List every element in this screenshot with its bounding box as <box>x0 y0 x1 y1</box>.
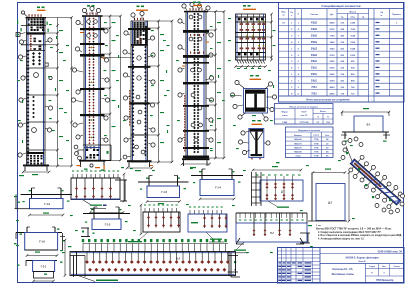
svg-text:блок Б: блок Б <box>358 260 366 263</box>
svg-text:Наимен.: Наимен. <box>294 135 303 137</box>
svg-text:Стадия: Стадия <box>369 266 375 268</box>
svg-text:Масса: Масса <box>349 12 357 14</box>
svg-text:М24х85: М24х85 <box>294 151 302 154</box>
svg-text:Г-1-3: Г-1-3 <box>105 223 111 226</box>
svg-text:ГПИ Механобр: ГПИ Механобр <box>376 279 394 282</box>
svg-text:М20х70: М20х70 <box>294 143 302 145</box>
svg-text:8450: 8450 <box>330 22 336 25</box>
svg-text:Колонны К1 - К5.: Колонны К1 - К5. <box>332 268 353 271</box>
svg-text:1096: 1096 <box>350 42 356 44</box>
svg-text:35Ш2: 35Ш2 <box>311 42 318 44</box>
svg-text:7050: 7050 <box>330 48 336 50</box>
svg-text:Лист: Лист <box>382 266 386 268</box>
svg-text:20Ш1: 20Ш1 <box>311 81 318 83</box>
svg-text:Итого масса металла на сооруже: Итого масса металла на сооружение <box>306 98 350 101</box>
svg-text:20Ш1: 20Ш1 <box>311 74 318 76</box>
svg-text:25Ш1: 25Ш1 <box>311 61 318 63</box>
svg-text:ед.: ед. <box>341 17 344 19</box>
svg-text:4950: 4950 <box>330 86 336 89</box>
svg-text:гайки: гайки <box>295 155 301 158</box>
svg-text:стали: стали <box>282 115 288 117</box>
svg-text:8100: 8100 <box>330 29 336 31</box>
svg-text:Г-1-2: Г-1-2 <box>44 203 50 206</box>
svg-text:4600: 4600 <box>330 92 336 95</box>
svg-text:1144: 1144 <box>350 35 356 38</box>
svg-text:5300: 5300 <box>330 81 336 83</box>
svg-text:Г-1-5: Г-1-5 <box>161 191 167 194</box>
svg-text:Г-1-6: Г-1-6 <box>39 241 45 244</box>
svg-text:1048: 1048 <box>350 47 356 50</box>
svg-text:Состав: Состав <box>310 14 318 16</box>
svg-text:Д-2: Д-2 <box>328 202 332 205</box>
svg-text:М20х60: М20х60 <box>294 139 302 141</box>
svg-text:40Ш2: 40Ш2 <box>311 28 318 31</box>
svg-text:ГОСТ: ГОСТ <box>301 112 307 114</box>
svg-text:Примеч.: Примеч. <box>392 14 401 16</box>
svg-text:25Ш1: 25Ш1 <box>311 68 318 70</box>
svg-text:5650: 5650 <box>330 74 336 76</box>
svg-text:пр.: пр. <box>362 17 365 19</box>
svg-text:Марка: Марка <box>282 112 289 114</box>
svg-text:Спецификация элементов: Спецификация элементов <box>321 4 360 8</box>
svg-text:Дл.: Дл. <box>330 14 334 16</box>
svg-text:Г-1-4: Г-1-4 <box>215 187 221 190</box>
svg-text:30Ш2: 30Ш2 <box>311 55 318 57</box>
svg-text:Болты М20 ГОСТ 7798-70* кл.про: Болты М20 ГОСТ 7798-70* кл.прочн. 5.8 — … <box>316 227 392 230</box>
svg-text:С245: С245 <box>282 121 288 124</box>
svg-text:27772-88: 27772-88 <box>300 122 310 124</box>
svg-text:6000: 6000 <box>330 68 336 70</box>
svg-text:Листов: Листов <box>394 266 400 268</box>
svg-text:40Ш2: 40Ш2 <box>311 22 318 25</box>
svg-text:6350: 6350 <box>330 61 336 63</box>
svg-text:ГОСТ: ГОСТ <box>314 135 320 137</box>
svg-text:М24х75: М24х75 <box>294 146 302 149</box>
svg-text:%: % <box>327 117 329 119</box>
svg-text:30Ш2: 30Ш2 <box>311 48 318 50</box>
svg-text:7750: 7750 <box>330 36 336 38</box>
svg-text:70Б1: 70Б1 <box>311 87 317 89</box>
svg-text:Ведомость метизов: Ведомость метизов <box>298 130 320 132</box>
svg-text:Всего: Всего <box>320 111 326 113</box>
svg-text:3. Все отверстия в колоннах Ø2: 3. Все отверстия в колоннах Ø23мм, сверл… <box>318 235 402 237</box>
svg-text:общ.: общ. <box>350 16 355 19</box>
svg-text:7400: 7400 <box>330 41 336 44</box>
svg-text:1240: 1240 <box>350 22 356 25</box>
svg-text:6700: 6700 <box>330 55 336 57</box>
svg-text:4. Антикоррозийную защиту см.: 4. Антикоррозийную защиту см. лист 12. <box>318 238 365 241</box>
svg-text:2. Сварку выполнять электродам: 2. Сварку выполнять электродами Э42А ГОС… <box>318 231 382 234</box>
svg-text:Б-1: Б-1 <box>367 124 372 127</box>
svg-text:Б-2: Б-2 <box>176 258 181 261</box>
svg-text:2345-9-КМ2 лист 34: 2345-9-КМ2 лист 34 <box>378 249 403 253</box>
svg-text:Монтажные схемы: Монтажные схемы <box>332 273 354 276</box>
svg-text:70Б1: 70Б1 <box>311 93 317 95</box>
svg-text:Г-2-1: Г-2-1 <box>41 267 47 269</box>
svg-text:АНОФ-3. Корпус флотации: АНОФ-3. Корпус флотации <box>345 256 379 259</box>
svg-text:1192: 1192 <box>350 29 356 31</box>
svg-text:1000: 1000 <box>350 55 356 57</box>
svg-text:или ТУ: или ТУ <box>301 115 309 117</box>
svg-text:Масса металла по маркам: Масса металла по маркам <box>290 106 319 108</box>
svg-text:35Ш2: 35Ш2 <box>311 36 318 38</box>
